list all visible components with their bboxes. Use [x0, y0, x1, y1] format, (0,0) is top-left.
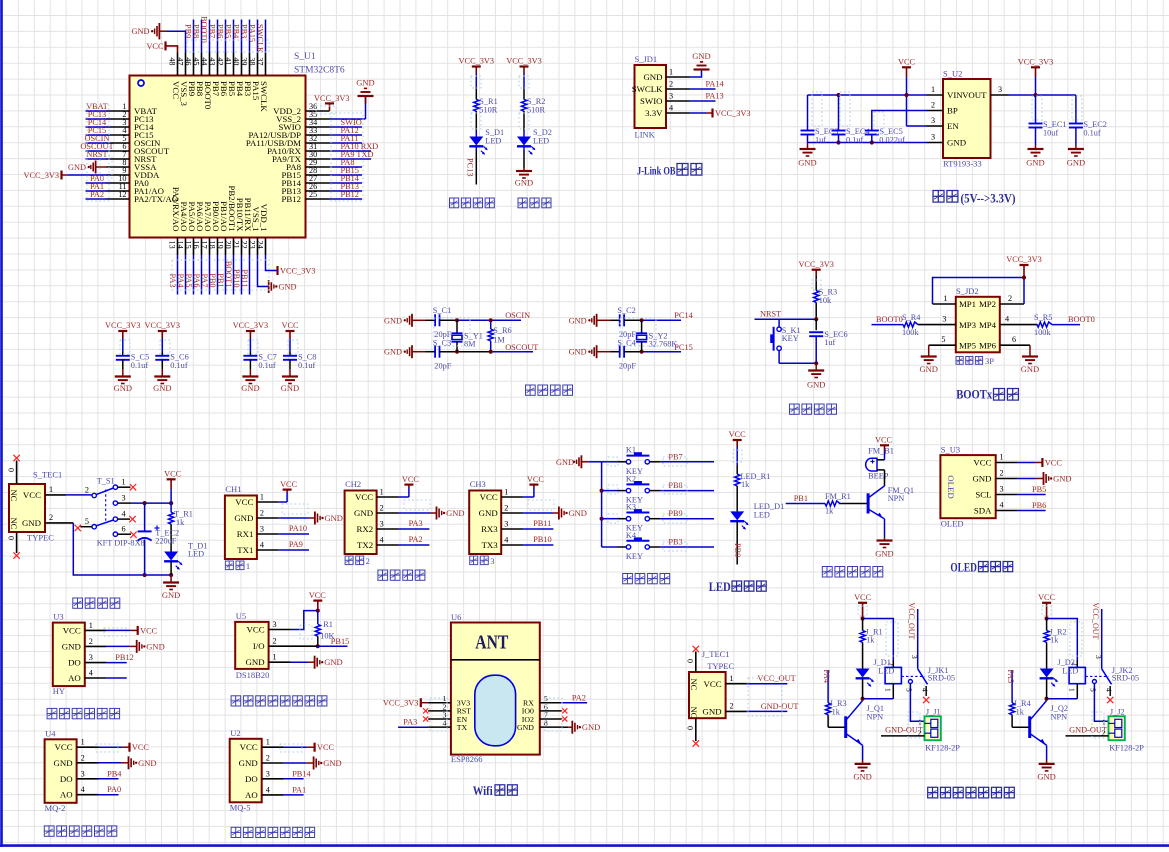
svg-text:NPN: NPN: [867, 712, 884, 721]
svg-text:MP2: MP2: [979, 299, 996, 309]
svg-text:SRD-05: SRD-05: [1112, 674, 1139, 683]
svg-text:S_C2: S_C2: [617, 306, 635, 315]
svg-text:S_R6: S_R6: [493, 326, 511, 335]
svg-text:DO: DO: [245, 774, 258, 784]
svg-text:PB6: PB6: [1032, 501, 1046, 510]
svg-text:VCC: VCC: [309, 591, 327, 600]
svg-text:T_S1: T_S1: [97, 476, 115, 485]
svg-text:1: 1: [931, 85, 935, 94]
svg-text:GND: GND: [1037, 771, 1055, 781]
svg-text:RX1: RX1: [237, 529, 254, 539]
svg-text:NPN: NPN: [1051, 712, 1068, 721]
svg-text:0: 0: [7, 536, 16, 540]
svg-text:GND: GND: [1053, 474, 1071, 484]
svg-text:SWCLK: SWCLK: [256, 24, 265, 53]
svg-text:FM_B1: FM_B1: [868, 447, 894, 456]
svg-text:1k: 1k: [825, 507, 834, 516]
svg-text:VCC: VCC: [898, 58, 916, 67]
svg-text:PB3: PB3: [240, 24, 249, 38]
svg-text:GND: GND: [162, 590, 180, 600]
svg-text:2: 2: [273, 637, 277, 646]
svg-text:TX3: TX3: [482, 540, 499, 550]
svg-text:PA2: PA2: [409, 535, 423, 544]
svg-text:1: 1: [89, 621, 93, 630]
svg-text:GND: GND: [54, 758, 73, 768]
svg-text:4: 4: [380, 536, 384, 545]
svg-text:0.1uf: 0.1uf: [298, 361, 316, 370]
svg-text:GND-OUT: GND-OUT: [761, 702, 799, 711]
svg-text:VCC: VCC: [875, 436, 893, 445]
svg-text:37: 37: [256, 57, 265, 65]
svg-text:S_U3: S_U3: [941, 445, 960, 455]
svg-text:25: 25: [309, 190, 317, 199]
svg-text:4: 4: [260, 541, 264, 550]
svg-text:2: 2: [85, 486, 89, 495]
svg-text:PA14: PA14: [706, 79, 725, 88]
svg-text:17: 17: [200, 241, 209, 249]
svg-text:1: 1: [1000, 453, 1004, 462]
svg-text:GND: GND: [919, 364, 937, 374]
svg-text:VCC: VCC: [63, 625, 81, 635]
svg-text:LED: LED: [533, 137, 549, 146]
svg-text:U6: U6: [451, 612, 461, 622]
svg-text:GND: GND: [356, 77, 374, 87]
svg-text:BOOT0: BOOT0: [200, 16, 209, 43]
svg-text:GND: GND: [1067, 158, 1085, 168]
svg-text:19: 19: [216, 241, 225, 249]
svg-text:VCC_3V3: VCC_3V3: [715, 109, 751, 118]
svg-text:GND: GND: [325, 513, 343, 523]
svg-text:PB1: PB1: [216, 273, 225, 287]
svg-text:3: 3: [122, 493, 126, 502]
svg-text:VCC: VCC: [527, 475, 545, 484]
svg-text:GND: GND: [279, 283, 297, 292]
svg-text:VCC_3V3: VCC_3V3: [1018, 58, 1054, 67]
svg-text:K4: K4: [626, 531, 637, 540]
svg-text:VCC_3V3: VCC_3V3: [233, 321, 269, 330]
svg-text:GND: GND: [384, 316, 402, 325]
svg-text:3: 3: [998, 85, 1002, 94]
svg-text:GND: GND: [517, 723, 534, 732]
svg-text:5: 5: [85, 517, 89, 526]
svg-text:J-Link OB: J-Link OB: [637, 164, 676, 178]
svg-text:NRST: NRST: [86, 150, 107, 159]
svg-text:BOOTx: BOOTx: [956, 388, 993, 402]
svg-text:GND: GND: [1021, 364, 1039, 374]
svg-text:3: 3: [81, 769, 85, 778]
svg-text:MQ-2: MQ-2: [45, 803, 66, 813]
svg-text:0: 0: [686, 659, 695, 663]
svg-text:100k: 100k: [1034, 328, 1051, 337]
svg-text:21: 21: [232, 241, 241, 249]
svg-text:6: 6: [1012, 335, 1016, 344]
svg-text:PB15: PB15: [331, 637, 349, 646]
svg-text:2: 2: [81, 753, 85, 762]
svg-text:GND: GND: [972, 474, 991, 484]
svg-text:GND: GND: [479, 508, 498, 518]
svg-text:0.1uf: 0.1uf: [1083, 128, 1101, 137]
svg-text:GND: GND: [22, 518, 41, 528]
svg-text:1k: 1k: [176, 518, 185, 527]
svg-text:GND: GND: [515, 178, 533, 188]
svg-text:3: 3: [504, 520, 508, 529]
svg-text:220uF: 220uF: [155, 536, 177, 545]
svg-text:1: 1: [1068, 688, 1077, 692]
svg-text:S_JD2: S_JD2: [956, 286, 979, 296]
svg-text:20pF: 20pF: [434, 362, 451, 371]
svg-text:TX1: TX1: [237, 545, 253, 555]
svg-text:U4: U4: [45, 728, 56, 738]
svg-text:20pF: 20pF: [619, 362, 636, 371]
svg-text:0.1uf: 0.1uf: [846, 135, 864, 144]
svg-text:0.1uf: 0.1uf: [258, 361, 276, 370]
svg-text:GND: GND: [875, 549, 893, 559]
svg-text:2: 2: [266, 754, 270, 763]
svg-text:2: 2: [931, 101, 935, 110]
svg-text:OLED: OLED: [941, 518, 964, 528]
svg-text:4: 4: [122, 509, 126, 518]
svg-text:GND: GND: [239, 758, 258, 768]
svg-text:PB8: PB8: [668, 481, 682, 490]
svg-text:VCC_3V3: VCC_3V3: [459, 57, 495, 66]
svg-text:PB6: PB6: [216, 24, 225, 38]
svg-text:GND: GND: [446, 508, 464, 518]
svg-text:PA5: PA5: [184, 274, 193, 288]
svg-text:PA9: PA9: [289, 540, 303, 549]
svg-text:NC: NC: [9, 490, 19, 502]
svg-text:GND: GND: [138, 758, 156, 768]
svg-text:GND: GND: [68, 163, 86, 172]
svg-text:PB8: PB8: [192, 24, 201, 38]
svg-text:VCC_3V3: VCC_3V3: [314, 94, 350, 103]
svg-text:VCC_3V3: VCC_3V3: [280, 266, 316, 275]
svg-text:1k: 1k: [1016, 708, 1025, 717]
svg-text:KF128-2P: KF128-2P: [925, 743, 960, 752]
svg-text:MP6: MP6: [979, 340, 997, 350]
svg-text:VCC_3V3: VCC_3V3: [1006, 255, 1042, 264]
svg-text:R1: R1: [323, 620, 333, 629]
svg-text:40: 40: [232, 57, 241, 65]
svg-text:2: 2: [730, 702, 734, 711]
svg-text:39: 39: [240, 57, 249, 65]
svg-text:SWCLK: SWCLK: [632, 84, 663, 94]
svg-text:4: 4: [443, 719, 447, 728]
svg-text:VCC: VCC: [973, 458, 991, 468]
svg-text:47: 47: [176, 57, 185, 65]
svg-text:PB5: PB5: [224, 24, 233, 38]
svg-text:GND: GND: [853, 771, 871, 781]
svg-text:VOUT: VOUT: [962, 90, 987, 100]
svg-text:LED: LED: [754, 511, 770, 520]
svg-text:1: 1: [504, 488, 508, 497]
svg-text:MP4: MP4: [979, 320, 997, 330]
svg-text:1: 1: [246, 561, 250, 571]
svg-text:VCC: VCC: [402, 475, 420, 484]
svg-text:OSCOUT: OSCOUT: [505, 343, 538, 352]
svg-text:PA6: PA6: [192, 274, 201, 288]
svg-text:2: 2: [1000, 469, 1004, 478]
svg-text:ESP8266: ESP8266: [451, 754, 483, 764]
svg-text:100k: 100k: [902, 328, 919, 337]
svg-text:3: 3: [380, 520, 384, 529]
svg-text:GND: GND: [556, 458, 574, 467]
svg-text:2: 2: [669, 80, 673, 89]
svg-text:AO: AO: [60, 790, 73, 800]
svg-text:LED: LED: [188, 550, 204, 559]
svg-text:PA3: PA3: [168, 274, 177, 288]
svg-text:PA3: PA3: [403, 718, 417, 727]
svg-text:MP5: MP5: [959, 340, 977, 350]
svg-text:GND: GND: [114, 383, 132, 393]
svg-text:DS18B20: DS18B20: [236, 670, 270, 680]
svg-text:GND: GND: [246, 657, 265, 667]
svg-text:GND: GND: [62, 641, 81, 651]
svg-text:MP1: MP1: [959, 299, 976, 309]
svg-text:VCC: VCC: [140, 626, 158, 635]
svg-text:GND: GND: [323, 758, 341, 768]
svg-text:4: 4: [669, 104, 673, 113]
svg-text:GND: GND: [354, 508, 373, 518]
svg-text:1k: 1k: [741, 480, 750, 489]
svg-text:PA7: PA7: [200, 274, 209, 288]
svg-text:46: 46: [184, 57, 193, 65]
svg-text:VCC_3V3: VCC_3V3: [145, 321, 181, 330]
svg-text:PA1: PA1: [292, 785, 306, 794]
svg-text:2: 2: [380, 504, 384, 513]
svg-text:RT9193-33: RT9193-33: [943, 159, 982, 169]
svg-text:1: 1: [884, 688, 893, 692]
svg-text:12: 12: [118, 190, 126, 199]
svg-text:J_J1: J_J1: [926, 707, 941, 716]
svg-text:BOOT0: BOOT0: [876, 315, 903, 324]
svg-text:2: 2: [366, 556, 370, 566]
svg-text:NC: NC: [689, 707, 699, 719]
svg-text:PB1: PB1: [794, 494, 808, 503]
svg-text:GND: GND: [241, 383, 259, 393]
svg-text:VCC_OUT: VCC_OUT: [907, 603, 916, 640]
svg-text:FM_R1: FM_R1: [825, 492, 851, 501]
svg-text:VCC_3V3: VCC_3V3: [383, 699, 419, 708]
svg-text:PB5: PB5: [1032, 485, 1046, 494]
svg-text:VCC: VCC: [235, 497, 253, 507]
svg-text:1: 1: [380, 488, 384, 497]
svg-text:ANT: ANT: [475, 633, 508, 654]
svg-text:8: 8: [544, 719, 548, 728]
svg-text:PB7: PB7: [208, 24, 217, 38]
svg-text:2: 2: [89, 637, 93, 646]
svg-text:GND: GND: [132, 27, 150, 36]
svg-text:AO: AO: [68, 673, 81, 683]
svg-text:22: 22: [240, 241, 249, 249]
svg-text:OSCIN: OSCIN: [505, 311, 530, 320]
svg-text:PA0: PA0: [107, 785, 121, 794]
svg-text:PB4: PB4: [232, 24, 241, 39]
svg-text:510R: 510R: [479, 106, 497, 115]
svg-text:KF128-2P: KF128-2P: [1109, 743, 1144, 752]
svg-text:44: 44: [200, 57, 209, 65]
svg-text:TYPEC: TYPEC: [707, 661, 734, 671]
svg-text:1: 1: [266, 738, 270, 747]
svg-text:1: 1: [273, 653, 277, 662]
svg-text:OLED: OLED: [946, 475, 956, 498]
svg-text:23: 23: [248, 241, 257, 249]
svg-text:3: 3: [266, 769, 270, 778]
svg-text:PA15: PA15: [248, 24, 257, 42]
svg-text:VCC_OUT: VCC_OUT: [1091, 603, 1100, 640]
svg-text:0.1uf: 0.1uf: [131, 361, 149, 370]
svg-text:GND: GND: [153, 383, 171, 393]
svg-text:I/O: I/O: [253, 641, 265, 651]
svg-text:1M: 1M: [493, 336, 505, 345]
svg-text:GND: GND: [324, 657, 342, 667]
svg-text:PB10: PB10: [533, 535, 551, 544]
svg-text:U3: U3: [53, 612, 63, 622]
svg-text:1: 1: [49, 485, 53, 494]
svg-text:1: 1: [260, 493, 264, 502]
svg-text:41: 41: [224, 57, 233, 65]
svg-text:VCC: VCC: [704, 679, 722, 689]
svg-text:GND: GND: [703, 707, 722, 717]
svg-text:LED: LED: [1062, 667, 1078, 676]
svg-text:MQ-5: MQ-5: [230, 802, 251, 812]
svg-text:43: 43: [208, 57, 217, 65]
svg-text:MP3: MP3: [959, 320, 977, 330]
svg-text:HY: HY: [53, 686, 65, 696]
svg-text:0.022uf: 0.022uf: [879, 135, 905, 144]
svg-text:GND: GND: [281, 383, 299, 393]
svg-text:5: 5: [941, 335, 945, 344]
svg-text:3: 3: [1000, 485, 1004, 494]
svg-text:1k: 1k: [866, 636, 875, 645]
svg-text:VCC: VCC: [247, 625, 265, 635]
svg-text:GND: GND: [569, 508, 587, 518]
svg-text:1: 1: [122, 477, 126, 486]
svg-text:16: 16: [192, 241, 201, 249]
svg-text:2: 2: [260, 509, 264, 518]
svg-text:DO: DO: [68, 658, 81, 668]
svg-text:VDD_1: VDD_1: [259, 204, 269, 232]
svg-text:PB0: PB0: [208, 273, 217, 287]
svg-text:PA13: PA13: [706, 91, 724, 100]
svg-text:VCC: VCC: [729, 430, 747, 439]
svg-text:CH1: CH1: [225, 484, 241, 494]
svg-text:4: 4: [1105, 688, 1114, 692]
svg-text:GND: GND: [643, 72, 662, 82]
svg-text:GND: GND: [146, 641, 164, 651]
svg-text:VCC: VCC: [355, 492, 373, 502]
svg-text:LED: LED: [709, 580, 731, 594]
svg-text:3: 3: [910, 655, 919, 659]
svg-text:RX3: RX3: [481, 524, 498, 534]
svg-text:5: 5: [905, 688, 914, 692]
svg-text:4: 4: [921, 688, 930, 692]
svg-text:3: 3: [942, 315, 946, 324]
svg-text:GND: GND: [798, 158, 816, 168]
svg-text:0.1uf: 0.1uf: [170, 361, 188, 370]
svg-text:S_U1: S_U1: [294, 52, 316, 62]
svg-text:CH2: CH2: [345, 479, 361, 489]
svg-text:SRD-05: SRD-05: [928, 674, 955, 683]
svg-text:3: 3: [669, 92, 673, 101]
svg-text:AO: AO: [245, 790, 258, 800]
svg-text:GND: GND: [384, 348, 402, 357]
svg-text:PB4: PB4: [107, 769, 122, 778]
svg-text:S_U2: S_U2: [943, 69, 962, 79]
svg-text:GND: GND: [947, 138, 966, 148]
svg-text:10uf: 10uf: [1043, 128, 1058, 137]
svg-text:4: 4: [81, 785, 85, 794]
svg-text:510R: 510R: [527, 106, 545, 115]
svg-text:NC: NC: [9, 518, 19, 530]
svg-text:1uf: 1uf: [815, 135, 826, 144]
svg-text:SWCLK: SWCLK: [259, 81, 269, 112]
svg-text:VCC: VCC: [55, 742, 73, 752]
svg-text:VCC: VCC: [280, 480, 298, 489]
svg-text:PC13: PC13: [466, 158, 475, 176]
svg-text:3: 3: [931, 133, 935, 142]
svg-text:1: 1: [730, 674, 734, 683]
svg-text:BP: BP: [947, 106, 958, 116]
svg-text:SCL: SCL: [975, 490, 991, 500]
svg-text:24: 24: [256, 241, 265, 249]
svg-text:U5: U5: [236, 611, 246, 621]
svg-text:BEEP: BEEP: [868, 472, 889, 481]
svg-text:2: 2: [1008, 294, 1012, 303]
svg-text:PA2: PA2: [90, 190, 104, 199]
svg-text:GND: GND: [569, 316, 587, 325]
svg-text:GND: GND: [1026, 158, 1044, 168]
svg-text:3.3V: 3.3V: [645, 108, 663, 118]
svg-text:VCC: VCC: [1038, 593, 1056, 602]
svg-text:45: 45: [192, 57, 201, 65]
svg-text:13: 13: [168, 241, 177, 249]
svg-text:S_C1: S_C1: [433, 306, 451, 315]
svg-text:4: 4: [89, 669, 93, 678]
svg-text:3: 3: [1094, 655, 1103, 659]
svg-text:5: 5: [1089, 688, 1098, 692]
svg-text:48: 48: [168, 57, 177, 65]
svg-text:S_JD1: S_JD1: [635, 54, 658, 64]
svg-text:J_J2: J_J2: [1110, 707, 1125, 716]
svg-text:VCC: VCC: [132, 743, 150, 752]
svg-text:GND: GND: [234, 513, 253, 523]
svg-text:18: 18: [208, 241, 217, 249]
svg-text:S_R4: S_R4: [902, 313, 921, 322]
svg-text:DO: DO: [60, 774, 73, 784]
svg-text:1uf: 1uf: [824, 338, 835, 347]
svg-text:1k: 1k: [832, 708, 841, 717]
svg-text:S_TEC1: S_TEC1: [33, 470, 62, 480]
svg-text:6: 6: [122, 524, 126, 533]
svg-text:3: 3: [931, 116, 935, 125]
svg-text:KEY: KEY: [782, 334, 799, 343]
svg-text:KEY: KEY: [626, 552, 643, 561]
svg-text:VIN: VIN: [947, 90, 963, 100]
svg-text:TX: TX: [457, 723, 468, 732]
svg-text:PB0: PB0: [733, 543, 742, 557]
svg-text:SDA: SDA: [974, 506, 992, 516]
svg-text:4: 4: [1000, 501, 1004, 510]
svg-text:EN: EN: [947, 121, 959, 131]
svg-text:TX2: TX2: [357, 540, 373, 550]
svg-text:LED: LED: [878, 667, 894, 676]
svg-text:BOOT0: BOOT0: [1068, 315, 1095, 324]
svg-text:NRST: NRST: [760, 310, 781, 319]
svg-text:PA10: PA10: [289, 524, 307, 533]
svg-text:NC: NC: [689, 679, 699, 691]
svg-text:PB12: PB12: [115, 653, 133, 662]
svg-text:42: 42: [216, 57, 225, 65]
